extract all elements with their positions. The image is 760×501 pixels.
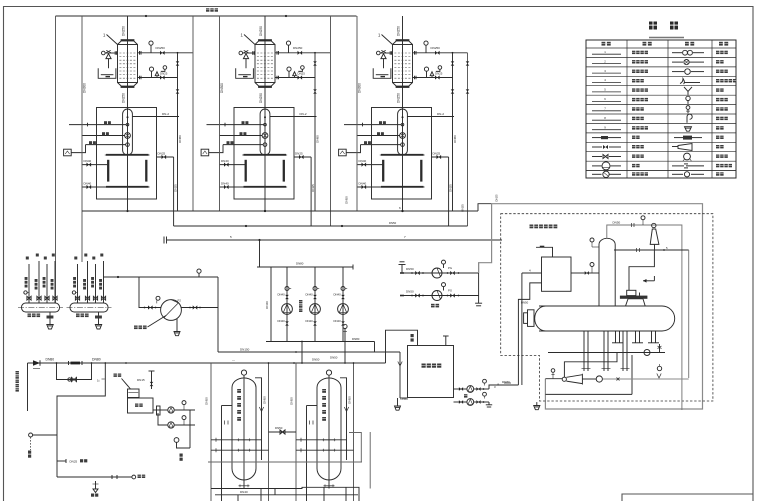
svg-text:DN300: DN300 <box>358 83 362 93</box>
instrument on column top <box>590 238 594 242</box>
pool drain funnel <box>397 398 399 406</box>
legend row 8 <box>592 119 621 121</box>
wire: arrow feed to manhole <box>643 280 654 282</box>
label: waste heat treatment unit <box>530 225 534 229</box>
instrument on column feed <box>590 263 594 267</box>
slop drum V1 <box>539 305 662 307</box>
wire: fan discharge <box>181 307 218 309</box>
wire: lineA/lineB tie riser with vent cap <box>478 263 480 303</box>
legend row 11 <box>592 146 602 148</box>
wire: collection line y487 <box>211 487 359 501</box>
wire: dosing water feed DN15 <box>151 371 153 389</box>
wire: feed main into pool <box>386 330 418 363</box>
wire: blowdown bus y211 <box>82 210 478 212</box>
wire: metering line 2 <box>158 413 168 425</box>
circulating water pool tank <box>408 346 454 398</box>
check valve <box>33 360 40 366</box>
drain pump circle <box>644 350 650 356</box>
wire: pump discharge to mixer riser <box>489 385 518 389</box>
label: fan with leader <box>134 326 138 330</box>
svg-text:DN250: DN250 <box>121 93 125 103</box>
svg-text:DN25: DN25 <box>70 460 78 464</box>
dosing day tank <box>128 389 140 398</box>
heat exchanger / furnace unit 2 <box>201 16 330 226</box>
drum manhole nozzle <box>626 299 646 306</box>
svg-text:DN150: DN150 <box>240 347 250 351</box>
wire: soft water bus y240 <box>167 239 502 241</box>
wire: blowdown stub y461 <box>57 460 66 462</box>
wire: unit3 left downcomer B <box>356 16 358 211</box>
title block frame <box>622 494 753 501</box>
fan drain funnel <box>176 319 178 331</box>
legend row 5 <box>592 91 621 93</box>
wire: mixer second feed elbow <box>518 283 541 385</box>
legend row 14 <box>592 173 602 175</box>
wire: dosing discharge drop to feed main <box>301 342 303 364</box>
svg-text:DN250: DN250 <box>121 26 125 36</box>
svg-text:DN50: DN50 <box>521 301 529 305</box>
svg-text:DN80: DN80 <box>296 261 304 265</box>
svg-text:DN300: DN300 <box>220 83 224 93</box>
strainer box <box>157 406 161 415</box>
wire: drop to fan suction <box>139 277 161 308</box>
wire: dosing suction header y267 <box>257 266 353 268</box>
wire: mixer inlet stub <box>536 247 553 257</box>
wire: tie line between tanks with valve <box>269 431 297 433</box>
wire: drain drop at x105 <box>57 363 105 477</box>
svg-text:DN50: DN50 <box>613 221 621 225</box>
activated carbon filter tank 1 <box>205 362 270 501</box>
wire: dosing discharge header y341.5 <box>266 341 375 343</box>
legend row 4 <box>592 82 621 84</box>
svg-text:DN80: DN80 <box>92 357 101 361</box>
legend row 6 <box>592 100 621 102</box>
svg-text:DN250: DN250 <box>259 93 263 103</box>
dosing pump 1 <box>278 267 293 342</box>
legend header labels <box>602 42 606 46</box>
sample cooler circle <box>174 438 179 443</box>
pool vent stub <box>445 336 447 346</box>
wire: boiler feed main y363 <box>28 362 295 364</box>
wire: unit1 left downcomer B <box>81 16 83 262</box>
flare cone FL <box>652 223 656 227</box>
pool transfer pump lower <box>454 401 467 403</box>
wire: relief header y250 <box>614 249 689 251</box>
wire: column overhead line <box>607 225 682 410</box>
wire: unit3 right collector drop <box>467 53 469 226</box>
heat exchanger / furnace unit 3 <box>339 16 468 226</box>
label: dosing pumps vertical <box>299 300 302 303</box>
svg-text:DN50: DN50 <box>345 196 349 204</box>
steam manifold 1 <box>18 254 63 330</box>
wire: big grey recycle pipe loop around treatment unit <box>479 204 703 409</box>
svg-text:DN50: DN50 <box>275 426 283 430</box>
wire: flare seal loop <box>629 250 654 290</box>
svg-text:DN40: DN40 <box>265 301 269 309</box>
mixer box M1 <box>542 257 572 291</box>
heat exchanger / furnace unit 1 <box>64 16 193 226</box>
instrument on header <box>198 273 200 277</box>
instrument circle on suction <box>551 369 555 373</box>
wire: feed drop from y240 <box>259 240 261 267</box>
svg-text:DN15: DN15 <box>137 378 145 382</box>
svg-text:DN250: DN250 <box>396 93 400 103</box>
legend row 7 <box>592 110 621 112</box>
legend table title <box>649 22 657 30</box>
svg-text:DN40: DN40 <box>240 490 248 494</box>
wire: metering line 1 <box>153 409 168 411</box>
legend row 2 <box>592 63 621 65</box>
label: pumps <box>431 304 435 308</box>
svg-text:DN50: DN50 <box>330 356 338 360</box>
wire: pit drop inner <box>400 397 408 399</box>
drum bottom nozzles <box>583 331 585 371</box>
pool overflow funnel at dashed corner <box>536 402 538 405</box>
svg-text:DN300: DN300 <box>83 83 87 93</box>
svg-text:1t: 1t <box>97 379 100 383</box>
drum legs <box>615 331 617 343</box>
drum left dished head and flange discs <box>535 306 546 331</box>
legend row 1 <box>592 53 621 55</box>
wire: drain line y352 to pit <box>218 351 400 353</box>
steam manifold 2 <box>67 254 112 330</box>
metering pump 2 <box>168 422 174 428</box>
gate valve with bar <box>68 361 70 365</box>
instrument <box>183 405 185 411</box>
wire: column feed with valve <box>584 272 599 274</box>
wire: bypass loop under main <box>57 363 92 380</box>
wire: condensate transfer x218 drop <box>217 277 219 352</box>
svg-text:DN80: DN80 <box>352 337 360 341</box>
circulating pump line A <box>400 260 479 278</box>
wire: bottom drain y477 <box>57 476 132 478</box>
legend row 9 <box>592 129 621 131</box>
legend table grid <box>586 40 736 178</box>
metering pump 1 <box>168 407 174 413</box>
svg-text:DN250: DN250 <box>259 26 263 36</box>
dosing pump 3 <box>334 267 349 342</box>
wire: left downcomer of dosing group <box>270 267 272 342</box>
svg-text:—: — <box>232 358 235 362</box>
wire: flue gas top header y16 <box>56 15 357 17</box>
dosing pump 2 <box>306 267 321 342</box>
transfer pump circle <box>596 376 602 382</box>
wire: unit3 left downcomer A <box>330 16 332 226</box>
svg-text:DN80: DN80 <box>46 357 55 361</box>
induced draft fan <box>161 300 182 321</box>
wire: right drop of relief header <box>688 250 690 378</box>
svg-text:DN50: DN50 <box>389 221 397 225</box>
circulating pump line B <box>400 283 479 301</box>
svg-text:DN250: DN250 <box>396 26 400 36</box>
instrument on header end <box>344 329 346 342</box>
instrument <box>183 420 185 426</box>
wire: lineA left vent cap <box>401 265 403 274</box>
wire: bottom recycle y393.5 <box>545 393 632 395</box>
drain valve symbol with label <box>95 481 97 489</box>
instrument on overhead <box>641 216 645 220</box>
wire: bottom line y495 <box>215 494 358 496</box>
wire: drain elbow down to eductor feed <box>564 353 617 378</box>
svg-text:DN25: DN25 <box>495 194 499 202</box>
wire: unit2 left downcomer A <box>192 16 194 211</box>
wire: drum drain line y352 <box>548 352 665 354</box>
wire: lower pump cap <box>488 402 490 405</box>
wire: unit2 left downcomer B <box>219 16 221 211</box>
wire: manifold2 riser-4 to condensate header y277 <box>104 276 219 278</box>
wire: left blowdown inlet vertical <box>27 363 29 411</box>
legend row 10 <box>592 137 601 139</box>
eductor with motive circle <box>562 377 566 381</box>
wire: sample branch y435 <box>33 434 58 436</box>
legend row 13 <box>592 165 602 167</box>
wire: lineB tail <box>459 295 479 297</box>
wire: unit1 left downcomer A <box>55 16 57 303</box>
wire: drain bus y226 <box>174 225 468 227</box>
dashed battery-limit box <box>501 214 713 401</box>
svg-text:P2: P2 <box>178 299 182 303</box>
label: dosing tank leader <box>114 374 117 377</box>
stripping column C1 <box>599 238 615 244</box>
wire: eductor suction line y378.7 <box>545 378 562 380</box>
dosing mix box <box>128 398 154 413</box>
activated carbon filter tank 2 <box>290 362 355 501</box>
wire: dosing outlet riser <box>189 410 191 448</box>
svg-text:DN50: DN50 <box>312 358 320 362</box>
legend row 3 <box>592 72 621 74</box>
legend row 12 <box>592 156 602 158</box>
pool transfer pump upper <box>454 388 467 390</box>
instrument on fan suction <box>156 300 158 303</box>
wire: mixer feed riser from pool pumps <box>521 273 523 385</box>
wire: long underdrain y462 <box>208 461 362 463</box>
